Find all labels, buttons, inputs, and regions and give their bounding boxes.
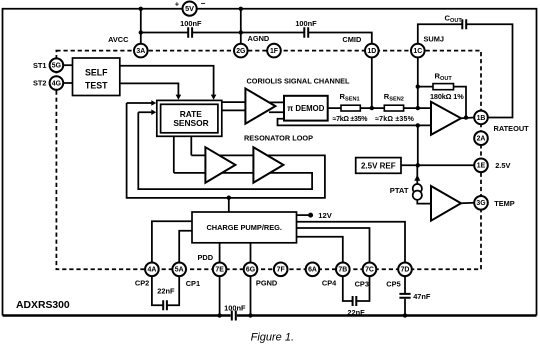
svg-text:22nF: 22nF <box>347 308 365 317</box>
svg-text:+: + <box>175 0 180 8</box>
wire: 7E to charge pump <box>219 243 221 263</box>
wire: SUMJ vertical 1C down to R_OUT tap and op-amp - input <box>417 57 419 108</box>
svg-text:6A: 6A <box>308 267 317 274</box>
PTAT current source <box>390 175 422 200</box>
capacitor 100nF (CMID decoupling) plates <box>304 27 308 37</box>
wire: rate sensor bottom outputs <box>174 136 192 173</box>
svg-text:≈7kΩ ±35%: ≈7kΩ ±35% <box>375 116 414 123</box>
node: 12V <box>308 213 313 218</box>
wire: self test out 1 to rate sensor top <box>120 66 214 96</box>
wire: demod ref jog to 2.5V line and op-amp + input <box>278 119 432 126</box>
wire: 2.5V REF output line to 1E <box>401 164 474 166</box>
capacitor value labels <box>157 19 431 317</box>
resistor R_SEN2 <box>375 92 414 123</box>
wire: 4G to self test <box>63 82 72 84</box>
wire: AGND vertical from 5V rail to pin 2G <box>240 9 242 44</box>
svg-text:AGND: AGND <box>248 34 270 43</box>
svg-text:4G: 4G <box>52 80 61 87</box>
capacitor 22nF between 4A and 5A <box>152 276 179 305</box>
svg-text:CHARGE PUMP/REG.: CHARGE PUMP/REG. <box>206 223 282 232</box>
svg-text:CMID: CMID <box>342 35 362 44</box>
svg-text:PGND: PGND <box>256 279 278 288</box>
svg-text:2G: 2G <box>236 48 245 55</box>
wire: demod output to op amp via sense resistors <box>328 107 431 109</box>
wire: resonator loop inner <box>138 112 312 189</box>
svg-text:TEST: TEST <box>85 81 108 91</box>
svg-text:CP2: CP2 <box>135 279 149 288</box>
svg-text:6G: 6G <box>246 267 255 274</box>
wire: 5G to self test <box>63 64 72 66</box>
svg-text:5G: 5G <box>52 63 61 70</box>
svg-text:1B: 1B <box>477 115 486 122</box>
capacitor C_OUT plates <box>462 19 466 29</box>
svg-text:CP4: CP4 <box>322 279 337 288</box>
svg-text:180kΩ 1%: 180kΩ 1% <box>430 92 464 101</box>
charge pump box <box>192 212 297 243</box>
rate sensor box (double border) <box>157 100 222 136</box>
resonator loop amp 1 <box>205 147 235 183</box>
svg-text:CP1: CP1 <box>186 279 200 288</box>
svg-text:5A: 5A <box>175 267 184 274</box>
svg-text:CORIOLIS SIGNAL CHANNEL: CORIOLIS SIGNAL CHANNEL <box>247 77 350 86</box>
svg-text:1C: 1C <box>413 48 422 55</box>
svg-text:PDD: PDD <box>198 253 214 262</box>
svg-text:RESONATOR LOOP: RESONATOR LOOP <box>244 134 313 143</box>
svg-text:100nF: 100nF <box>180 19 202 28</box>
svg-text:π DEMOD: π DEMOD <box>287 104 325 113</box>
demodulator box U-demod <box>284 96 328 121</box>
wire: 6G to charge pump <box>250 243 252 263</box>
wire: self test out 2 to rate sensor top <box>120 83 179 95</box>
svg-text:ST1: ST1 <box>33 61 47 70</box>
wire: 12V stub <box>297 214 309 216</box>
charge pump box left wire to 4A <box>152 221 192 262</box>
wire: temp buffer to 3G <box>461 202 474 205</box>
svg-text:12V: 12V <box>318 211 332 220</box>
svg-text:100nF: 100nF <box>224 303 246 312</box>
op amp U1 <box>431 102 461 135</box>
5V supply circle <box>175 0 206 16</box>
svg-text:2.5V REF: 2.5V REF <box>361 161 396 170</box>
svg-text:CP5: CP5 <box>386 279 400 288</box>
svg-text:3G: 3G <box>476 200 485 207</box>
resistor R_OUT 180k <box>430 72 464 102</box>
wire: decoupling rail y=32.5 with cap gaps <box>141 33 372 45</box>
svg-text:CP3: CP3 <box>355 279 369 288</box>
capacitor 47nF on 7D <box>404 276 406 315</box>
wire: feedback arrow lines into rate sensor <box>127 103 153 112</box>
svg-text:7F: 7F <box>277 267 285 274</box>
wire: CMID vertical 1D to sense node <box>371 57 373 108</box>
2.5V REF box <box>356 158 401 174</box>
arrowheads: feedback into rate sensor <box>151 100 156 115</box>
svg-text:22nF: 22nF <box>157 286 175 295</box>
charge pump wire to 7C <box>297 228 370 263</box>
coriolis amplifier triangle <box>245 89 275 124</box>
wire: loop to charge pump <box>228 198 230 212</box>
svg-text:4A: 4A <box>147 267 156 274</box>
svg-text:1D: 1D <box>367 48 376 55</box>
pin circles <box>50 44 488 276</box>
svg-text:SENSOR: SENSOR <box>173 118 208 128</box>
svg-text:1E: 1E <box>477 163 486 170</box>
wire: 7E down to ground rail <box>219 276 221 315</box>
resistor R_SEN1 <box>333 92 369 123</box>
self test box <box>73 58 120 96</box>
svg-text:SUMJ: SUMJ <box>424 35 445 44</box>
svg-text:TEMP: TEMP <box>494 199 515 208</box>
capacitor 100nF (AVCC decoupling) plates <box>188 27 192 37</box>
svg-text:5V: 5V <box>185 4 194 13</box>
wire: AVCC vertical from 5V rail to pin 3A <box>140 9 142 44</box>
wire: C_OUT feedback top path <box>418 24 513 117</box>
svg-text:RATEOUT: RATEOUT <box>494 124 530 133</box>
pin name labels <box>33 34 529 288</box>
wire: R_OUT feedback <box>418 87 466 118</box>
temp buffer triangle <box>431 186 461 221</box>
svg-text:47nF: 47nF <box>413 292 431 301</box>
svg-text:≈7kΩ ±35%: ≈7kΩ ±35% <box>333 116 369 123</box>
capacitor 100nF on ground rail plates <box>232 311 236 321</box>
dashed pin ring (AVCC/pin nets) <box>56 51 481 270</box>
svg-text:7E: 7E <box>215 267 224 274</box>
wire: op amp output to 1B <box>461 117 474 120</box>
svg-text:AVCC: AVCC <box>108 35 129 44</box>
wire: rate sensor outputs to coriolis amp/demod <box>222 102 284 112</box>
svg-text:3A: 3A <box>136 48 145 55</box>
arrowheads: self test into rate sensor <box>176 95 217 100</box>
wire: PTAT current source branch <box>417 165 431 203</box>
svg-text:−: − <box>201 0 206 8</box>
wire: op amp + input vertical to 2.5V line <box>417 125 419 165</box>
svg-text:SELF: SELF <box>85 67 108 77</box>
svg-text:2A: 2A <box>477 136 486 143</box>
charge pump wire to 5A <box>179 231 192 263</box>
svg-text:ST2: ST2 <box>33 79 47 88</box>
svg-text:2.5V: 2.5V <box>495 161 510 170</box>
svg-text:7D: 7D <box>401 267 410 274</box>
svg-text:ADXRS300: ADXRS300 <box>16 300 70 311</box>
wire: resonator loop outer <box>127 103 325 198</box>
svg-text:1F: 1F <box>270 48 278 55</box>
charge pump wire to 7D <box>297 222 406 263</box>
resonator loop amp 2 <box>253 147 283 183</box>
svg-text:7B: 7B <box>338 267 347 274</box>
pin designators <box>52 48 486 274</box>
svg-text:PTAT: PTAT <box>390 186 409 195</box>
capacitor 22nF between 7B and 7C <box>343 276 370 301</box>
wire: 6G down to ground rail <box>250 276 252 315</box>
svg-text:100nF: 100nF <box>295 19 317 28</box>
charge pump wire to 7B <box>297 237 343 263</box>
svg-text:Figure 1.: Figure 1. <box>251 331 294 343</box>
svg-text:7C: 7C <box>365 267 374 274</box>
